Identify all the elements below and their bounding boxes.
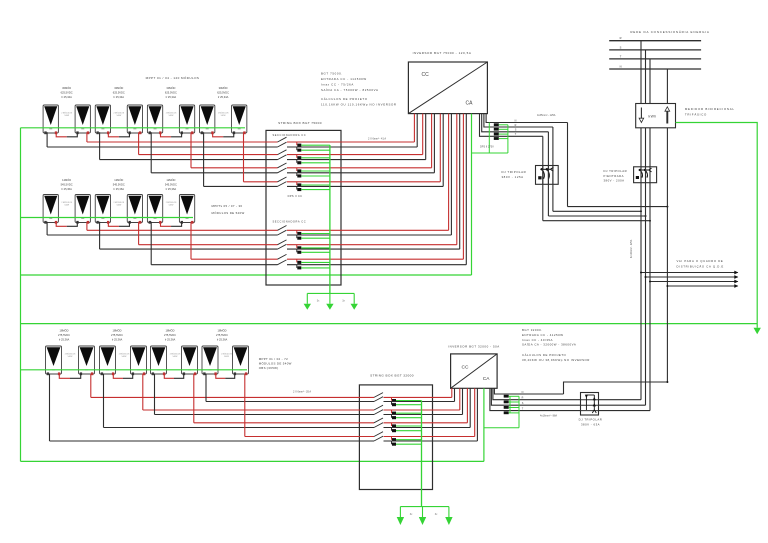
PV module B1.1: [43, 195, 58, 224]
ground stub string2.1 negative: [301, 237, 330, 239]
wire string3.3 positive: [194, 422, 374, 424]
DPS device string3.4 positive: [392, 437, 397, 442]
svg-text:P/ENTRADA: P/ENTRADA: [604, 174, 625, 178]
wire drop row3 g1 negative: [49, 374, 51, 441]
wire drop row3 g2 positive: [142, 374, 144, 410]
string box 1 ground bus: [329, 145, 331, 293]
svg-text:CC: CC: [462, 365, 469, 371]
ground wire row3 modules: [21, 369, 248, 371]
DPS device string3.2 negative: [392, 415, 397, 420]
svg-text:275,5VDC: 275,5VDC: [216, 333, 228, 337]
string label row1 g4: [217, 85, 229, 99]
wire inverter1 AC R: [484, 114, 553, 127]
PV module B2.2: [127, 195, 142, 224]
DPS AC2 S: [504, 406, 509, 409]
wire inverter1 MPPT2 negative: [425, 114, 427, 160]
wire drop row2 g1 negative: [46, 222, 48, 235]
svg-text:DJ TRIPOLAR: DJ TRIPOLAR: [579, 417, 603, 421]
DPS device string2.1 negative: [297, 235, 302, 240]
wire distribution feed 1: [641, 272, 738, 274]
disconnect switch string2.3 positive: [278, 254, 287, 259]
disconnect switch string1.4 positive: [278, 177, 287, 182]
svg-text:Ir 25,36A: Ir 25,36A: [165, 338, 176, 342]
svg-text:545,5VDC: 545,5VDC: [113, 183, 125, 187]
DPS device string1.1 positive: [297, 142, 302, 147]
wire AC feed S junction run: [548, 215, 645, 217]
wire inverter1 MPPT2 positive: [422, 114, 424, 155]
PV module A3.2: [179, 105, 194, 134]
ground stub string1.1 negative: [301, 149, 330, 151]
wire inverter2 ground: [483, 388, 485, 461]
svg-text:INVERSOR BGT 75000 - 120,5A: INVERSOR BGT 75000 - 120,5A: [413, 51, 472, 55]
wire string2.2 positive: [139, 244, 278, 246]
wire main N vertical: [666, 128, 668, 382]
series link row3 group3: [164, 374, 174, 379]
disconnect switch string3.4 negative: [374, 436, 383, 441]
wire string3.3 negative: [104, 427, 375, 429]
DPS AC2 ground stub R: [509, 401, 519, 403]
wire AC feed T riser: [542, 136, 544, 220]
DPS AC2 T: [504, 411, 509, 414]
svg-text:Ir 25,34A: Ir 25,34A: [61, 95, 72, 99]
DPS AC2 ground stub N: [509, 395, 519, 397]
wire inverter1 AC S: [482, 114, 549, 132]
DPS device string1.1 negative: [297, 147, 302, 152]
wire string1.1 negative: [47, 146, 277, 148]
wire inverter1 MPPT5 positive: [448, 114, 450, 231]
disconnect switch string3.4 positive: [374, 432, 383, 437]
breaker Q1 label: [502, 170, 527, 179]
wire inverter2 MPPT1 negative: [454, 388, 456, 401]
PV module A1.1: [43, 105, 58, 134]
svg-text:Ir 25,34A: Ir 25,34A: [218, 95, 229, 99]
wire string2.2 negative: [100, 248, 278, 250]
wire drop row2 g3 negative: [150, 222, 152, 265]
string label row1 g2: [113, 85, 125, 99]
PV module C3.1: [151, 346, 167, 375]
DPS AC1 N: [494, 123, 499, 126]
inverter 2 data text: [522, 328, 590, 362]
wire string1.3 negative: [151, 172, 277, 174]
wire inverter2 MPPT3 negative: [469, 388, 471, 427]
ground stub string1.3 negative: [301, 175, 330, 177]
ground stub string3.4 negative: [396, 443, 422, 445]
svg-text:Ir 25,36A: Ir 25,36A: [113, 187, 124, 191]
wire inverter1 MPPT7 negative: [465, 114, 467, 265]
DPS AC2 ground bus: [518, 396, 520, 428]
wire drop row1 g1 negative: [46, 132, 48, 147]
disconnect switch string2.2 negative: [278, 244, 287, 249]
disconnect switch string2.3 negative: [278, 260, 287, 265]
wire drop row1 g3 positive: [190, 132, 192, 168]
disconnect switch string1.2 positive: [278, 150, 287, 155]
svg-text:DISTRIBUIÇÃO CA Q.D.E: DISTRIBUIÇÃO CA Q.D.E: [677, 263, 725, 268]
DPS AC1 ground frame: [488, 123, 490, 154]
PV module A2.2: [127, 105, 142, 134]
svg-text:625,5VDC: 625,5VDC: [165, 91, 177, 95]
svg-text:N: N: [620, 65, 622, 69]
grid bus T: [609, 58, 701, 60]
wire inverter2 AC N: [494, 388, 563, 394]
wire inverter2 AC T: [490, 388, 650, 410]
svg-text:BGT 32000.: BGT 32000.: [522, 328, 543, 332]
svg-text:Ir 25,36A: Ir 25,36A: [59, 338, 70, 342]
DPS device string2.2 positive: [297, 245, 302, 250]
wire inverter1 MPPT7 positive: [462, 114, 464, 260]
grid tap N: [666, 69, 668, 104]
series link row1 group1: [56, 132, 67, 137]
PV module C1.1: [46, 346, 62, 375]
string label row3 g4: [216, 328, 228, 342]
ground wire main horizontal: [21, 323, 758, 325]
DPS AC1 S: [494, 133, 499, 136]
svg-text:S: S: [620, 45, 622, 49]
ground stub string3.2 negative: [396, 417, 422, 419]
grid tap S: [645, 50, 647, 104]
disconnect switch string2.2 positive: [278, 240, 287, 245]
DPS device string1.2 positive: [297, 155, 302, 160]
disconnect switch string3.2 positive: [374, 405, 383, 410]
series link row1 group4: [213, 132, 224, 137]
wire drop row3 g1 positive: [90, 374, 92, 398]
wire inverter2 MPPT2 positive: [459, 388, 461, 410]
svg-text:275,5VDC: 275,5VDC: [58, 333, 70, 337]
svg-text:Ir 25,34A: Ir 25,34A: [166, 95, 177, 99]
string label row3 g3: [164, 328, 176, 342]
svg-text:Imax CC - 75/26A: Imax CC - 75/26A: [321, 83, 354, 87]
svg-text:110,16KW OU 110,16KWp NO INVER: 110,16KW OU 110,16KWp NO INVERSOR: [321, 102, 397, 106]
disconnect switch string1.3 positive: [278, 163, 287, 168]
DPS device string3.1 positive: [392, 397, 397, 402]
svg-text:545,5VDC: 545,5VDC: [165, 183, 177, 187]
PV module C4.1: [202, 346, 218, 375]
svg-text:2 MÓDULOS: 2 MÓDULOS: [166, 201, 177, 204]
inverter 1 data text: [321, 71, 397, 106]
svg-text:2 MÓDULOS: 2 MÓDULOS: [65, 353, 76, 356]
arrow distribution feed 1: [734, 271, 738, 275]
wire AC feed N junction run: [568, 206, 668, 208]
inverter U2 BGT 32000: [451, 354, 498, 388]
svg-text:N: N: [522, 391, 524, 394]
svg-text:Ir 25,36A: Ir 25,36A: [61, 187, 72, 191]
wire string2.3 positive: [191, 258, 278, 260]
meter ground arrow: [754, 328, 761, 334]
wire string3.1 negative: [206, 401, 374, 403]
svg-text:BGT 75000.: BGT 75000.: [321, 71, 343, 75]
ground stub string1.3 positive: [301, 170, 330, 172]
disconnect switch string2.1 positive: [278, 226, 287, 231]
DPS device string1.2 negative: [297, 160, 302, 165]
svg-text:N: N: [515, 119, 517, 122]
wire string1.1 positive: [87, 141, 278, 143]
svg-text:DPS II 275V: DPS II 275V: [480, 146, 494, 149]
disconnect switch string1.1 positive: [278, 137, 287, 142]
DPS device string1.4 positive: [297, 182, 302, 187]
meter ground wire: [676, 123, 758, 328]
svg-text:2 MÓDULOS: 2 MÓDULOS: [170, 353, 181, 356]
arrow distribution feed 2: [734, 275, 738, 279]
PV module A2.1: [95, 105, 110, 134]
DPS device string1.3 positive: [297, 168, 302, 173]
svg-text:545,5VDC: 545,5VDC: [61, 183, 73, 187]
svg-text:MPPTs 05 / 07 - 36: MPPTs 05 / 07 - 36: [212, 204, 243, 208]
svg-text:ENTRADA CC - 41250W: ENTRADA CC - 41250W: [522, 333, 563, 337]
svg-text:2 MÓDULOS: 2 MÓDULOS: [114, 201, 125, 204]
disconnect switch string1.2 negative: [278, 155, 287, 160]
svg-text:R: R: [620, 36, 622, 40]
ground stub string1.4 positive: [301, 184, 330, 186]
wire string2.3 negative: [151, 264, 277, 266]
DPS AC1 ground stub S: [499, 133, 508, 135]
PV module A4.1: [200, 105, 215, 134]
circuit breaker Q3 DJ TRIPOLAR 63A: [581, 393, 599, 416]
svg-text:540W: 540W: [221, 115, 226, 117]
DPS AC1 T: [494, 137, 499, 140]
svg-text:CÁLCULOS DE PROJETO: CÁLCULOS DE PROJETO: [522, 353, 567, 357]
DPS AC2 N: [504, 395, 509, 398]
DPS AC2 ground stub S: [509, 407, 519, 409]
PV module B3.1: [147, 195, 162, 224]
wire string3.4 negative: [50, 440, 375, 442]
svg-text:4x120mm² - 225A: 4x120mm² - 225A: [630, 239, 633, 258]
ground wire row2 modules: [21, 217, 194, 219]
wire string2.1 negative: [47, 234, 277, 236]
string label row1 g3: [165, 85, 177, 99]
svg-text:STRING BOX BGT 75000: STRING BOX BGT 75000: [278, 121, 322, 125]
ground stub string2.2 positive: [301, 247, 330, 249]
wire inverter2 MPPT3 positive: [466, 388, 468, 423]
ground stub string2.1 positive: [301, 233, 330, 235]
breaker Q2 label: [604, 169, 628, 182]
DPS AC1 ground tail: [472, 152, 508, 154]
wire AC feed R junction run: [553, 210, 641, 212]
wire main S vertical: [645, 128, 647, 405]
wire drop row3 g2 negative: [103, 374, 105, 428]
PV module B2.1: [95, 195, 110, 224]
svg-text:540W: 540W: [173, 356, 178, 358]
DPS device string3.2 positive: [392, 410, 397, 415]
svg-text:2 MÓDULOS: 2 MÓDULOS: [114, 112, 125, 115]
PV module A3.1: [147, 105, 162, 134]
wire main R vertical: [640, 128, 642, 400]
svg-text:MEDIDOR BIDIRECIONAL: MEDIDOR BIDIRECIONAL: [685, 107, 735, 111]
grid tap T: [649, 59, 651, 104]
wire inverter2 AC N riser: [564, 382, 668, 394]
svg-text:2 MÓDULOS: 2 MÓDULOS: [61, 201, 72, 204]
DPS device string3.4 negative: [392, 441, 397, 446]
PV module C4.2: [233, 346, 249, 375]
DPS device string1.3 negative: [297, 173, 302, 178]
svg-text:380V - 125A: 380V - 125A: [502, 175, 524, 179]
wire drop row2 g3 positive: [190, 222, 192, 260]
svg-text:SECCIONADORA CC: SECCIONADORA CC: [273, 133, 307, 137]
series link row2 group1: [56, 222, 67, 227]
svg-text:DPS II CC: DPS II CC: [288, 194, 303, 198]
svg-text:MÓDULOS DE 540W: MÓDULOS DE 540W: [212, 210, 245, 215]
disconnect switch string1.4 negative: [278, 182, 287, 187]
wire distribution feed 3: [650, 281, 738, 283]
PV module A4.2: [232, 105, 247, 134]
DPS device string2.3 negative: [297, 265, 302, 270]
meter label: [685, 107, 735, 116]
wire string1.3 positive: [191, 167, 278, 169]
svg-text:DJ TRIPOLAR: DJ TRIPOLAR: [604, 169, 628, 173]
wire inverter1 AC T: [480, 114, 543, 137]
wire string1.2 negative: [100, 159, 278, 161]
svg-text:540W: 540W: [64, 115, 69, 117]
wire inverter2 MPPT4 negative: [476, 388, 478, 441]
svg-text:CÁLCULOS DE PROJETO: CÁLCULOS DE PROJETO: [321, 97, 368, 101]
wire string3.1 positive: [91, 396, 374, 398]
bidirectional meter kWh: [636, 104, 676, 128]
wire inverter1 MPPT4 negative: [442, 114, 444, 187]
DPS device string3.3 negative: [392, 428, 397, 433]
PV module C2.2: [131, 346, 147, 375]
wire inverter1 MPPT4 positive: [439, 114, 441, 182]
svg-text:540W: 540W: [116, 115, 121, 117]
ground wire row1 modules: [21, 127, 246, 129]
wire drop row1 g2 negative: [99, 132, 101, 159]
wire inverter1 MPPT5 negative: [450, 114, 452, 235]
wire inverter1 MPPT3 positive: [431, 114, 433, 168]
wire drop row1 g3 negative: [150, 132, 152, 173]
svg-text:MPPT 01 / 02 - 72: MPPT 01 / 02 - 72: [259, 357, 288, 361]
circuit breaker Q1 DJ TRIPOLAR 125A: [536, 166, 559, 185]
svg-text:275,5VDC: 275,5VDC: [111, 333, 123, 337]
distribution label: [677, 259, 725, 268]
svg-text:CA: CA: [466, 101, 474, 107]
wire distribution feed 2: [646, 276, 738, 278]
svg-text:Ir 25,36A: Ir 25,36A: [166, 187, 177, 191]
string box BGT 75000 enclosure: [266, 130, 341, 285]
DPS device string2.2 negative: [297, 249, 302, 254]
string label row2 g3: [165, 177, 177, 191]
svg-text:MÓDULOS DE 540W: MÓDULOS DE 540W: [259, 361, 292, 366]
DPS AC2 ground frame: [509, 396, 511, 413]
wire string1.4 positive: [244, 181, 278, 183]
svg-text:Ir 25,36A: Ir 25,36A: [112, 338, 123, 342]
wire AC feed S riser: [547, 132, 549, 216]
svg-text:DJ TRIPOLAR: DJ TRIPOLAR: [502, 170, 527, 174]
series link row3 group4: [216, 374, 225, 379]
svg-text:SAÍDA CA - 75000W - 82500VA: SAÍDA CA - 75000W - 82500VA: [321, 88, 379, 92]
PV module C1.2: [79, 346, 95, 375]
DPS AC1 ground bus: [507, 125, 509, 153]
wire drop row1 g4 negative: [203, 132, 205, 186]
disconnect switch string1.1 negative: [278, 142, 287, 147]
string label row1 g1: [61, 85, 73, 99]
wire drop row3 g4 positive: [244, 374, 246, 437]
ground stub string2.3 positive: [301, 261, 330, 263]
series link row2 group2: [108, 222, 119, 227]
disconnect switch string3.1 positive: [374, 393, 383, 398]
series link row2 group3: [161, 222, 172, 227]
grid tap R: [640, 41, 642, 104]
svg-text:REDE DA CONCESSIONÁRIA ENERGIA: REDE DA CONCESSIONÁRIA ENERGIA: [630, 30, 709, 34]
wire inverter1 MPPT1 positive: [413, 114, 415, 142]
wire inverter1 MPPT6 positive: [456, 114, 458, 245]
arrow distribution feed 3: [734, 280, 738, 284]
svg-text:Ir 25,36A: Ir 25,36A: [217, 338, 228, 342]
svg-text:540W: 540W: [68, 356, 73, 358]
ground bus left vertical: [20, 128, 22, 462]
MPPT label row3: [259, 357, 292, 370]
DPS AC1 ground stub T: [499, 138, 508, 140]
wire drop row1 g4 positive: [243, 132, 245, 182]
inverter U1 BGT 75000: [408, 62, 487, 114]
svg-text:625,5VDC: 625,5VDC: [217, 91, 229, 95]
wire main T vertical: [649, 128, 651, 411]
string label row3 g2: [111, 328, 123, 342]
series link row1 group2: [108, 132, 119, 137]
series link row3 group1: [59, 374, 70, 379]
wire inverter1 MPPT1 negative: [416, 114, 418, 147]
wire inverter2 MPPT1 positive: [451, 388, 453, 397]
PV module C2.1: [100, 346, 116, 375]
wire drop row3 g3 positive: [193, 374, 195, 423]
DPS AC2 ground tail: [485, 427, 520, 429]
wire AC feed N riser: [567, 123, 569, 207]
PV module B3.2: [179, 195, 194, 224]
string label row2 g1: [61, 177, 73, 191]
svg-text:2 MÓDULOS: 2 MÓDULOS: [218, 112, 229, 115]
wire AC feed R riser: [552, 127, 554, 211]
svg-text:Imax CC - 40/35A: Imax CC - 40/35A: [522, 338, 553, 342]
svg-text:540W: 540W: [224, 356, 229, 358]
disconnect switch string3.1 negative: [374, 397, 383, 402]
svg-text:ENTRADA CC - 112500W: ENTRADA CC - 112500W: [321, 77, 367, 81]
wire string3.4 positive: [245, 436, 374, 438]
DPS AC1 R: [494, 128, 499, 131]
svg-text:4x35mm² - 125A: 4x35mm² - 125A: [537, 114, 556, 117]
wire string2.1 positive: [87, 229, 278, 231]
PV module C3.2: [182, 346, 198, 375]
ground stub string2.3 negative: [301, 267, 330, 269]
wire drop row2 g1 positive: [86, 222, 88, 231]
svg-text:R: R: [515, 124, 517, 127]
DPS AC1 ground stub N: [499, 124, 508, 126]
ground electrode symbol 1: [304, 293, 358, 309]
svg-text:2 MÓDULOS: 2 MÓDULOS: [119, 353, 130, 356]
series link row3 group2: [113, 374, 123, 379]
wire inverter1 MPPT6 negative: [459, 114, 461, 250]
breaker Q3 label: [579, 417, 603, 426]
svg-text:2 MÓDULOS: 2 MÓDULOS: [221, 353, 232, 356]
string box 2 ground bus: [421, 401, 423, 507]
ground stub string1.2 negative: [301, 162, 330, 164]
ground stub string3.3 negative: [396, 430, 422, 432]
MPPT label row2: [212, 204, 245, 215]
wire drop row3 g4 negative: [205, 374, 207, 402]
svg-text:kWh: kWh: [649, 115, 657, 119]
svg-text:275,5VDC: 275,5VDC: [164, 333, 176, 337]
wire string3.2 positive: [143, 409, 374, 411]
DPS AC2 R: [504, 401, 509, 404]
wire inverter2 MPPT2 negative: [462, 388, 464, 414]
svg-text:Ir 25,34A: Ir 25,34A: [113, 95, 124, 99]
ground stub string3.1 negative: [396, 404, 422, 406]
wire drop row2 g2 positive: [138, 222, 140, 245]
svg-text:SECCIONADORA CC: SECCIONADORA CC: [273, 219, 307, 223]
wire drop row2 g2 negative: [99, 222, 101, 249]
wire inverter2 AC S: [491, 388, 645, 405]
svg-text:540W: 540W: [64, 205, 69, 207]
svg-text:540W: 540W: [169, 115, 174, 117]
svg-text:VAI PARA O QUADRO DE: VAI PARA O QUADRO DE: [677, 259, 724, 263]
string box BGT 32000 enclosure: [359, 385, 432, 490]
svg-text:OBS:(365W): OBS:(365W): [259, 366, 279, 370]
DPS device string2.3 positive: [297, 259, 302, 264]
